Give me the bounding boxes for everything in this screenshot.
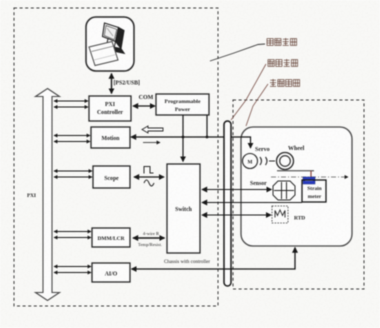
right dashed enclosure (dedicated modules) [233, 100, 364, 289]
PXI Controller block [89, 96, 131, 121]
wire pair: bus to DMM [54, 231, 91, 233]
DMM block [92, 228, 130, 247]
dash-dot axis line [271, 176, 348, 178]
Scope block [93, 166, 130, 188]
wheel circles [277, 153, 294, 170]
interface capsule bar [224, 121, 231, 286]
strain gauge (blue) [303, 177, 315, 184]
junction [206, 136, 209, 139]
PXI bus arrow (vertical outline double arrow) [36, 89, 60, 301]
AI/O block [92, 263, 130, 282]
label (chinese) public host computer [267, 38, 297, 45]
wire: DMM to switch double arrow [133, 237, 165, 239]
junction [182, 136, 185, 139]
coupling [260, 157, 275, 165]
label (chinese) dedicated module [270, 79, 300, 86]
wire: COM double arrow [133, 105, 155, 107]
left dashed enclosure (PXI system) [14, 8, 218, 306]
computer icon keyboard [89, 42, 118, 66]
callout line 2 [231, 64, 266, 120]
Switch block [167, 164, 200, 253]
computer icon monitor [103, 23, 125, 49]
wire pair: bus to motion [54, 135, 90, 137]
annotation outline arrow (to motion) [142, 126, 163, 133]
wire: switch to sensor [202, 189, 272, 191]
Motion block [91, 127, 130, 148]
square wave symbol [144, 167, 154, 174]
computer icon base [107, 46, 125, 54]
wire: programmable power down to switch [182, 115, 184, 162]
strain gauge tick [310, 171, 312, 177]
rounded box (unit under test) [241, 127, 352, 246]
wire: programmable power right drop [206, 115, 208, 137]
sensor load cell [273, 181, 295, 200]
shaft line under wheel [277, 170, 314, 172]
annotation thin arrow (from motion) [143, 142, 160, 144]
wire: motion to servo line [131, 137, 251, 148]
wire: strain meter to switch [202, 202, 302, 204]
RTD symbol box [272, 206, 288, 223]
wire: PS2/USB double arrow [111, 74, 113, 94]
wire pair: bus to AI/O [54, 266, 91, 268]
wire pair: bus to scope [54, 170, 92, 172]
computer icon frame [86, 17, 134, 71]
wire pair: bus to controller [54, 100, 88, 102]
callout line 1 [210, 44, 265, 61]
computer icon pedestal [107, 39, 116, 49]
motor M circle [243, 154, 258, 169]
callout line 3 [246, 84, 268, 126]
sine wave symbol [144, 180, 154, 186]
wire: scope to switch double arrow [134, 176, 164, 178]
wire: switch to RTD [202, 214, 271, 216]
wire: rounded box to AI/O [132, 248, 296, 270]
strain meter box [302, 180, 326, 202]
Programmable Power block [156, 94, 209, 115]
label (chinese) general interface [268, 59, 298, 66]
